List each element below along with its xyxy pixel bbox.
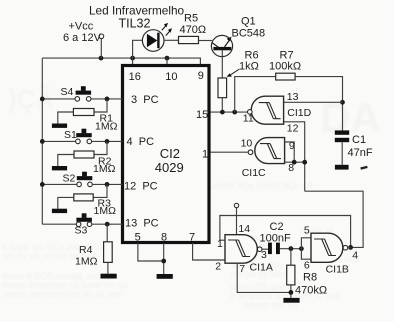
switch S4 — [75, 86, 91, 101]
wire: row S2 — [42, 183, 122, 185]
ground R4 — [101, 274, 117, 279]
svg-text:8: 8 — [161, 231, 167, 243]
switch S1 — [76, 129, 92, 144]
svg-text:R7: R7 — [280, 49, 294, 61]
wire: R7 right to C1 — [295, 77, 342, 131]
wire: left bus — [41, 58, 43, 224]
resistor R5 — [179, 36, 199, 43]
svg-text:12 PC: 12 PC — [124, 180, 158, 192]
svg-text:R4: R4 — [79, 244, 93, 256]
wire: S1 to R2 — [94, 141, 107, 154]
node: R8 ground junction — [289, 290, 294, 295]
resistor R8 — [287, 265, 295, 285]
svg-text:C2: C2 — [270, 221, 284, 233]
svg-text:BC548: BC548 — [232, 27, 266, 39]
svg-text:10: 10 — [241, 137, 253, 149]
svg-text:S4: S4 — [61, 86, 74, 98]
resistor R3 — [74, 194, 93, 201]
wire: +Vcc terminal drop — [100, 39, 102, 59]
svg-text:+Vcc: +Vcc — [69, 21, 94, 33]
svg-text:1MΩ: 1MΩ — [75, 256, 98, 268]
ground R8 — [283, 298, 299, 303]
node: CI1B output junction — [348, 245, 353, 250]
svg-text:16: 16 — [129, 71, 141, 83]
svg-text:470Ω: 470Ω — [180, 24, 207, 36]
wire: row S3 — [42, 223, 122, 225]
wire: row S1 — [42, 140, 122, 142]
node: S3 right — [105, 222, 110, 227]
switch S3 — [76, 213, 92, 226]
wire: CI1C output to IC pin1 — [209, 151, 248, 153]
svg-text:1MΩ: 1MΩ — [94, 205, 117, 217]
wire: IC pin8 down — [163, 243, 165, 274]
svg-text:1: 1 — [202, 148, 208, 160]
ground pins 5-8 — [157, 274, 173, 279]
wire: CI1B out riser — [220, 216, 351, 248]
switch S2 — [77, 172, 93, 187]
svg-text:12: 12 — [287, 123, 299, 135]
capacitor C1 — [335, 130, 349, 134]
svg-text:4 PC: 4 PC — [127, 136, 155, 148]
node: S1 right — [105, 139, 110, 144]
wire: CI1D pin13 input — [284, 101, 343, 103]
wire: R1 to ground — [58, 112, 74, 124]
wire: Q1 emitter to R6 — [221, 50, 223, 78]
svg-text:CI1B: CI1B — [326, 263, 349, 275]
wire: pin10 drop — [166, 58, 168, 64]
LED D1 TIL32 — [142, 23, 172, 52]
svg-text:9: 9 — [198, 70, 204, 82]
svg-text:1MΩ: 1MΩ — [95, 121, 118, 133]
wire: CI1A pin7 ground run — [237, 263, 291, 292]
wire: R6 to pin15 rail — [221, 98, 223, 112]
resistor R1 — [73, 109, 94, 116]
ground C1 — [335, 165, 349, 170]
svg-text:3: 3 — [261, 249, 267, 261]
svg-text:S2: S2 — [63, 173, 76, 185]
ghost watermark texts — [2, 84, 381, 310]
svg-text:13: 13 — [287, 91, 299, 103]
wire: feedback loop right — [305, 191, 363, 247]
op gate CI1C — [248, 138, 284, 164]
wire: CI1C pin9 input — [285, 142, 295, 162]
terminal +Vcc — [99, 34, 104, 39]
svg-text:TIL32: TIL32 — [119, 17, 151, 31]
wire: pin14 drop — [236, 208, 238, 235]
svg-text:100kΩ: 100kΩ — [269, 61, 301, 73]
node: pin5-8 junction — [161, 259, 166, 264]
R6 pointer arrow — [229, 69, 240, 76]
wire: C1 to ground — [341, 142, 343, 165]
node: bus S2 — [40, 182, 45, 187]
svg-text:R8: R8 — [303, 272, 317, 284]
node: pin12 junction — [302, 160, 307, 165]
transistor Q1 — [211, 35, 232, 56]
svg-text:1kΩ: 1kΩ — [239, 61, 259, 73]
svg-text:DA: DA — [320, 94, 381, 141]
wire: CI1C pin8 input — [285, 161, 305, 163]
wire: LED anode branch — [133, 40, 143, 58]
svg-text:1: 1 — [217, 238, 223, 250]
svg-text:ĹЯUAMЯ ЯOĸ OAЯTЯUĸ ĸЯ: ĹЯUAMЯ ЯOĸ OAЯTЯUĸ ĸЯ — [196, 181, 313, 191]
svg-text:CI2: CI2 — [160, 146, 180, 161]
node: R8 junction — [289, 246, 294, 251]
svg-text:R5: R5 — [184, 12, 198, 24]
artifact dash — [360, 166, 367, 170]
wire: IC pin5 down — [138, 243, 164, 261]
wire: R3 to ground — [58, 197, 74, 208]
svg-text:10: 10 — [165, 71, 177, 83]
wire: pin16 drop — [132, 58, 134, 64]
wire: CI1B out stub — [348, 247, 351, 249]
svg-text:uesnp uomoqncous as qu ses: uesnp uomoqncous as qu ses — [2, 289, 122, 299]
node: pin10 junction — [165, 56, 170, 61]
resistor R7 — [276, 73, 295, 80]
svg-text:100nF: 100nF — [260, 232, 291, 244]
svg-text:5: 5 — [135, 231, 141, 243]
wire: R5 to Q1 — [199, 40, 213, 42]
wire: S2 to R3 — [93, 184, 107, 197]
node: R6 junction — [220, 110, 225, 115]
wire: R4 to ground — [107, 262, 109, 273]
node: R7 riser junction — [232, 110, 237, 115]
wire: R8 drop — [290, 249, 292, 266]
svg-text:11: 11 — [243, 112, 254, 124]
svg-text:CI1C: CI1C — [242, 167, 266, 179]
node: +Vcc junction — [99, 56, 104, 61]
terminal CI1 pin14 — [234, 203, 238, 207]
node: S4 right — [105, 97, 110, 102]
svg-text:1MΩ: 1MΩ — [93, 163, 116, 175]
node: C1 top junction — [340, 100, 345, 105]
node: S2 right — [105, 182, 110, 187]
svg-text:13 PC: 13 PC — [125, 217, 159, 229]
svg-text:4029: 4029 — [155, 160, 184, 175]
node: CI1B input junction — [299, 246, 304, 251]
ground R3 — [52, 209, 67, 213]
ground R1 — [52, 124, 67, 128]
op gate CI1D — [248, 96, 284, 124]
wire: LED cathode to R5 — [164, 39, 179, 41]
wire: row S4 — [42, 98, 122, 100]
svg-text:14: 14 — [238, 223, 250, 235]
svg-text:470kΩ: 470kΩ — [295, 285, 327, 297]
svg-text:6: 6 — [304, 259, 310, 271]
svg-text:5: 5 — [304, 224, 310, 236]
svg-text:7: 7 — [239, 263, 245, 275]
svg-text:7: 7 — [189, 231, 195, 243]
wire: S3 to R4 — [106, 224, 108, 242]
svg-text:CI1D: CI1D — [287, 107, 311, 119]
svg-text:S1: S1 — [64, 129, 77, 141]
svg-text:3 PC: 3 PC — [131, 94, 159, 106]
resistor R4 — [104, 242, 113, 263]
wire: R2 to ground — [58, 155, 74, 167]
op gate CI1B — [311, 233, 348, 262]
resistor R2 — [74, 151, 94, 158]
node: bus S1 — [40, 139, 45, 144]
svg-text:15: 15 — [196, 109, 208, 121]
svg-text:2: 2 — [215, 261, 221, 273]
op gate CI1A — [225, 235, 262, 264]
svg-text:C1: C1 — [352, 134, 366, 146]
svg-text:CI1A: CI1A — [250, 261, 273, 273]
IC CI2 4029 — [123, 66, 210, 243]
wire: pin15 rail — [209, 111, 248, 113]
resistor R6 — [218, 78, 227, 98]
svg-text:Led Infravermelho: Led Infravermelho — [89, 3, 185, 17]
capacitor C2 — [268, 243, 272, 255]
wire: +Vcc top bus — [42, 58, 200, 64]
wire: CI1B input loop — [301, 238, 311, 259]
svg-text:S3: S3 — [75, 225, 88, 237]
svg-text:Q1: Q1 — [241, 16, 256, 28]
node: bus S4 — [40, 97, 45, 102]
wire: R8 to ground — [290, 285, 292, 298]
wire: IC pin7 to CI1A pin2 — [193, 243, 225, 260]
svg-text:6 a 12V: 6 a 12V — [63, 32, 102, 44]
wire: CI1A out to C2 — [262, 248, 268, 250]
svg-text:47nF: 47nF — [348, 147, 373, 159]
wire: S4 to R1 — [94, 99, 107, 112]
ground R2 — [52, 166, 67, 170]
wire: C2 to CI1B node — [280, 248, 302, 250]
svg-text:4: 4 — [352, 249, 358, 261]
node: LED branch junction — [130, 56, 135, 61]
wire: CI1D pin12 to node — [284, 122, 305, 191]
wire: R7 left riser — [235, 77, 276, 113]
node: pin9 junction — [292, 160, 297, 165]
